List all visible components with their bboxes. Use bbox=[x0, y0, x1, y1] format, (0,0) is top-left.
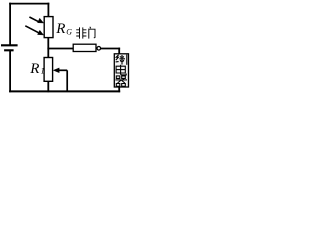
svg-text:R: R bbox=[29, 61, 39, 77]
svg-text:R: R bbox=[55, 21, 65, 37]
svg-text:1: 1 bbox=[41, 67, 45, 76]
svg-text:G: G bbox=[66, 27, 72, 36]
